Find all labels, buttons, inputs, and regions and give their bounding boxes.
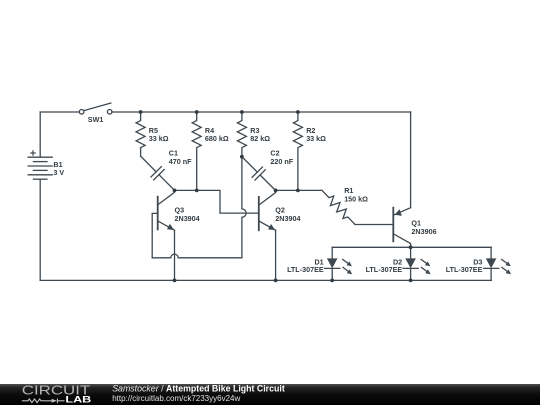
svg-text:470 nF: 470 nF (169, 157, 192, 166)
node R2 bottom (296, 189, 300, 193)
wire battery top lead (39, 112, 41, 157)
node R3 top (240, 110, 244, 114)
svg-text:SW1: SW1 (88, 115, 104, 124)
LED D2 (403, 258, 431, 280)
wire R1 to Q1 base (355, 224, 393, 226)
svg-text:150 kΩ: 150 kΩ (344, 195, 368, 204)
svg-text:2N3906: 2N3906 (411, 227, 436, 236)
wire D2 top lead (410, 247, 412, 258)
node D1 bottom (330, 279, 334, 283)
svg-text:LTL-307EE: LTL-307EE (446, 265, 483, 274)
wire D3 top lead (490, 247, 492, 258)
node Q2 collector (274, 189, 278, 193)
capacitor C1 (135, 151, 179, 196)
node R4 top (195, 110, 199, 114)
svg-text:3 V: 3 V (53, 168, 64, 177)
switch SW1 (79, 103, 112, 114)
LED D1 (325, 258, 353, 280)
svg-text:220 nF: 220 nF (270, 157, 293, 166)
wire bottom rail (40, 279, 491, 281)
footer bar (0, 384, 540, 405)
wire LED top rail (332, 246, 491, 248)
transistor Q3 2N3904 (158, 190, 175, 230)
node Q3 collector (173, 189, 177, 193)
label battery plus (30, 150, 36, 156)
capacitor C2 (237, 152, 281, 196)
svg-text:LTL-307EE: LTL-307EE (366, 265, 403, 274)
svg-text:R1: R1 (344, 186, 353, 195)
logo resistor-diode glyph (22, 399, 65, 404)
svg-text:2N3904: 2N3904 (275, 214, 300, 223)
transistor Q2 2N3904 (259, 190, 276, 230)
svg-text:http://circuitlab.com/ck7233yy: http://circuitlab.com/ck7233yy6v24w (112, 394, 240, 403)
wire top rail (SW1 to top-right corner) (112, 111, 411, 113)
wire top rail left (battery to SW1) (40, 111, 79, 113)
svg-text:33 kΩ: 33 kΩ (149, 134, 169, 143)
wire Q3 emitter to ground rail (174, 230, 176, 280)
svg-text:LAB: LAB (65, 394, 92, 404)
resistor R3 (237, 112, 246, 155)
wire D1 top lead (331, 247, 333, 258)
node R5 top (139, 110, 143, 114)
node R4 bottom (195, 189, 199, 193)
battery B1 (28, 157, 52, 179)
node R2 top (296, 110, 300, 114)
svg-text:680 kΩ: 680 kΩ (205, 134, 229, 143)
resistor R2 (293, 112, 302, 188)
wire R3 bottom down to cross-coupling (hops over Q2 base wire) (242, 157, 246, 258)
svg-text:Samstocker / Attempted Bike Li: Samstocker / Attempted Bike Light Circui… (112, 384, 285, 394)
wire Q2 emitter to ground rail (275, 230, 277, 280)
wire cross-coupling to Q3 base (hops over Q3 emitter wire) (152, 213, 242, 257)
svg-text:2N3904: 2N3904 (175, 214, 200, 223)
svg-text:33 kΩ: 33 kΩ (306, 134, 326, 143)
node Q2 emitter ground (274, 279, 278, 283)
wire right rail down to Q1 emitter (410, 112, 412, 208)
node R3 bottom (240, 155, 244, 159)
resistor R5 (136, 112, 145, 156)
svg-text:82 kΩ: 82 kΩ (250, 134, 270, 143)
wire battery bottom lead / left rail (39, 179, 41, 280)
svg-text:LTL-307EE: LTL-307EE (287, 265, 324, 274)
LED D3 (484, 258, 512, 280)
transistor Q1 2N3906 (393, 208, 410, 248)
node D2 top (409, 245, 413, 249)
wire Q3 collector node to Q2 base (175, 190, 259, 213)
node Q3 emitter ground (173, 279, 177, 283)
resistor R1 (319, 187, 359, 227)
wire Q2 collector node to R1 (276, 189, 322, 191)
resistor R4 (192, 112, 201, 188)
node D2 bottom (409, 279, 413, 283)
